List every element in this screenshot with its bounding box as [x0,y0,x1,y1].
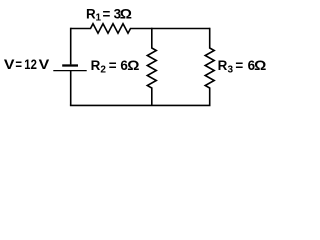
svg-text:R3=6Ω: R3=6Ω [218,58,267,75]
svg-text:R2=6Ω: R2=6Ω [91,58,140,75]
svg-text:R1=3Ω: R1=3Ω [86,6,132,23]
svg-text:V=12V: V=12V [4,57,49,72]
